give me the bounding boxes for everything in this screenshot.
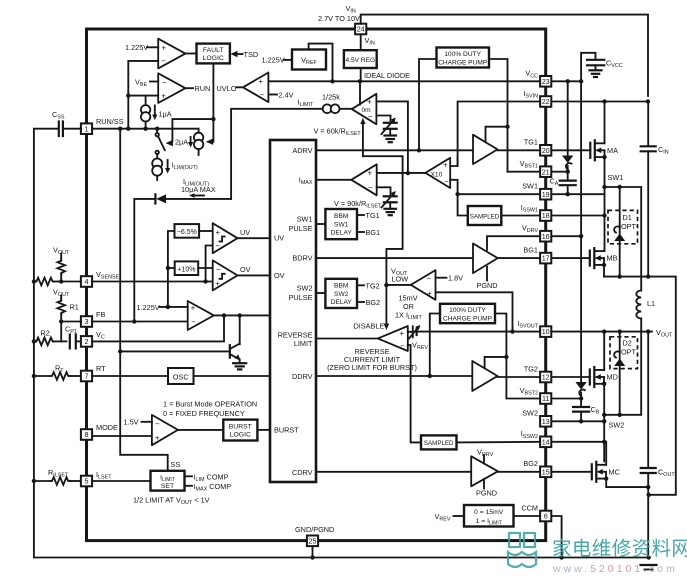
- svg-text:DDRV: DDRV: [292, 372, 313, 381]
- node bootstrap TG1 driver tap: [505, 125, 509, 129]
- node ISSW1 tap: [602, 213, 606, 217]
- svg-text:8: 8: [85, 430, 89, 439]
- wire +10% to OV minus: [198, 267, 213, 269]
- svg-text:TG1: TG1: [524, 138, 538, 147]
- pin 8 MODE: [81, 429, 92, 440]
- wire reverse comp out to block: [316, 338, 378, 340]
- box 100% DUTY CHARGE PUMP bottom: [440, 304, 495, 323]
- wire BDRV to BG1 driver: [316, 257, 473, 259]
- svg-text:BG2: BG2: [366, 298, 381, 307]
- svg-text:+: +: [259, 77, 264, 86]
- node MD source: [602, 382, 606, 386]
- wire box to pin6: [514, 515, 541, 517]
- svg-text:1: 1: [85, 124, 89, 133]
- svg-text:11: 11: [542, 394, 549, 403]
- control logic block (central): [270, 140, 316, 482]
- resistor VSENSE bottom divider: [35, 278, 61, 286]
- wire OV output to block: [238, 274, 271, 276]
- node SW1 X10 tap: [455, 192, 459, 196]
- op-amp BG2 gate driver: [471, 456, 498, 486]
- wire OSC to block: [194, 375, 271, 377]
- node VSENSE divider: [59, 279, 63, 283]
- svg-text:BURST: BURST: [229, 424, 252, 431]
- ground symbol bottom right: [641, 565, 657, 570]
- battery VREV: [408, 325, 421, 339]
- svg-text:−: −: [444, 178, 449, 187]
- svg-text:1.225V: 1.225V: [125, 43, 148, 52]
- node VOUT COUT tap: [646, 329, 650, 333]
- svg-text:SW1: SW1: [522, 182, 538, 191]
- diode bootstrap 1 (VCC to VBST1): [562, 81, 573, 171]
- svg-text:−: −: [161, 57, 166, 66]
- svg-text:MB: MB: [607, 254, 618, 263]
- node MB source: [602, 263, 606, 267]
- wire BG2 driver out to pin15: [498, 471, 540, 473]
- transistor MB: [590, 248, 618, 268]
- svg-text:LOGIC: LOGIC: [230, 432, 251, 439]
- resistor RT: [34, 372, 81, 380]
- ground under Q1: [233, 363, 246, 369]
- wire ILSET pin to ILIM SET box: [92, 480, 150, 482]
- svg-text:17: 17: [542, 254, 550, 263]
- svg-text:D1: D1: [623, 213, 632, 222]
- wire sampled1 left: [458, 194, 468, 215]
- wire SW2 pin external: [552, 420, 605, 422]
- svg-text:DELAY: DELAY: [331, 230, 353, 237]
- svg-text:PGND: PGND: [476, 489, 497, 498]
- resistor RILSET: [34, 477, 81, 485]
- svg-text:UV: UV: [274, 234, 284, 243]
- pin 5 ILSET: [81, 476, 92, 487]
- svg-text:LOGIC: LOGIC: [203, 55, 224, 62]
- wire SW1 node to L1: [605, 187, 642, 291]
- op-amp comparator 1.225V (fault): [158, 39, 185, 69]
- svg-text:TSD: TSD: [244, 50, 259, 59]
- wire 0m output arrow from ADRV jog: [362, 124, 364, 157]
- wire comp2 plus input: [128, 95, 158, 97]
- node disable junction: [384, 283, 388, 287]
- node COUT rail return junction: [647, 493, 651, 497]
- node VSENSE UV tap: [203, 279, 207, 283]
- transistor MA: [590, 140, 618, 160]
- svg-text:SW2: SW2: [609, 421, 625, 430]
- svg-text:3: 3: [85, 317, 89, 326]
- svg-text:+: +: [161, 91, 166, 100]
- arrow into 0m comparator: [360, 118, 365, 124]
- wire FB internal: [92, 321, 188, 323]
- svg-text:R2: R2: [41, 329, 50, 338]
- node VDRV rail tap: [579, 234, 583, 238]
- wire VBST1 external: [552, 171, 568, 173]
- svg-text:SW2: SW2: [522, 409, 538, 418]
- wire MODE comp out to burst logic: [178, 429, 223, 431]
- watermark icon: [508, 533, 536, 567]
- svg-text:+: +: [216, 228, 221, 237]
- wire TG2 gate: [552, 376, 590, 378]
- svg-text:BURST: BURST: [274, 425, 299, 434]
- diode D1 optional with dashed box: [608, 187, 638, 277]
- box 100% DUTY CHARGE PUMP top: [437, 48, 490, 68]
- wire BG1 driver out to pin: [498, 257, 540, 259]
- wire Css left to bus: [34, 128, 58, 130]
- comparator UV: [213, 223, 238, 253]
- IC outline border: [87, 29, 546, 541]
- wire X10 plus to ISVIN: [450, 157, 457, 166]
- node SS-vertical to BJT base: [118, 349, 122, 353]
- node 1.225V reference: [166, 305, 170, 309]
- stub TG1 tap BBM1: [357, 211, 380, 220]
- svg-text:SW1: SW1: [334, 221, 349, 228]
- pin 1 RUN/SS: [81, 123, 92, 134]
- svg-text:OPT: OPT: [621, 222, 637, 231]
- svg-text:23: 23: [542, 77, 550, 86]
- node RUN/SS SS-vertical: [118, 127, 122, 131]
- svg-text:ADRV: ADRV: [292, 146, 312, 155]
- transistor Q1 clamp BJT: [120, 315, 240, 362]
- wire SW1 internal: [458, 193, 540, 195]
- wire SW2 PULSE to BBM2: [316, 292, 325, 294]
- svg-text:L1: L1: [647, 299, 655, 308]
- wire -6.5% to UV plus: [199, 230, 213, 232]
- wire plus10 tap: [168, 267, 175, 269]
- hold capacitor 1 (adjustable): [382, 118, 397, 135]
- svg-text:0 = FIXED FREQUENCY: 0 = FIXED FREQUENCY: [163, 409, 245, 418]
- svg-text:−: −: [368, 112, 373, 121]
- wire error amp output: [214, 314, 270, 316]
- svg-text:SW1: SW1: [608, 173, 624, 182]
- svg-text:LIMIT: LIMIT: [294, 339, 313, 348]
- capacitor CB: [573, 399, 589, 422]
- wire 0m chain jog to disable vertical: [363, 156, 403, 285]
- wire burst logic to block: [257, 429, 270, 431]
- node X10 output junction: [406, 171, 410, 175]
- wire VDRV long vertical rail: [580, 81, 582, 382]
- wire VOUT LOW minus to 1.8V: [436, 277, 447, 279]
- node ISVOUT sense tap: [510, 329, 514, 333]
- svg-text:PULSE: PULSE: [289, 224, 313, 233]
- wire 0m plus to X10 node: [376, 101, 408, 173]
- node bus R2: [32, 339, 36, 343]
- svg-text:CCM: CCM: [521, 503, 538, 512]
- arrow fault to 2uA source: [206, 139, 213, 145]
- svg-text:1.5V: 1.5V: [124, 418, 139, 427]
- node reg output on rail: [358, 79, 362, 83]
- svg-text:5: 5: [85, 477, 89, 486]
- wire 1.225V node to plus: [160, 306, 188, 308]
- resistor R1: [57, 296, 65, 322]
- wire charge pump2 right to VBST2: [495, 314, 540, 399]
- node VIN/ISVIN junction: [646, 99, 650, 103]
- pin 6 CCM: [540, 511, 551, 522]
- svg-text:MODE: MODE: [96, 423, 118, 432]
- wire pin24 to reg: [360, 34, 362, 50]
- svg-text:+: +: [443, 161, 448, 170]
- svg-text:TG2: TG2: [524, 364, 538, 373]
- wire TG2 driver out to pin: [498, 376, 541, 378]
- svg-text:21: 21: [542, 167, 550, 176]
- svg-text:+10%: +10%: [177, 266, 195, 273]
- wire VBE dash: [150, 81, 158, 83]
- wire bootstrap to TG1 driver top: [486, 127, 508, 143]
- pin 18 ISSW1: [540, 210, 551, 221]
- wire VDRV internal rail: [487, 236, 540, 250]
- current source 1uA: [141, 96, 150, 129]
- svg-text:2μA: 2μA: [175, 138, 188, 147]
- svg-text:+: +: [215, 279, 220, 288]
- node MA source: [602, 155, 606, 159]
- wire diode row: [134, 199, 231, 322]
- wire pin25 stub to bus: [312, 546, 314, 557]
- box SAMPLED 2: [421, 435, 457, 449]
- svg-text:1/25k: 1/25k: [322, 93, 340, 102]
- node bus RT: [32, 374, 36, 378]
- svg-text:10: 10: [542, 327, 550, 336]
- wire CDRV to BG2 driver: [316, 471, 471, 473]
- stub BG2 driver VDRV: [477, 448, 494, 464]
- svg-text:BG1: BG1: [523, 246, 538, 255]
- wire divider to pin4: [61, 281, 81, 283]
- svg-text:R1: R1: [70, 303, 79, 312]
- wire IMAX minus to hold cap 2: [377, 187, 391, 194]
- svg-text:+: +: [162, 44, 167, 53]
- current source ILIM(OUT): [152, 154, 162, 180]
- capacitor CVCC with ground: [581, 53, 604, 82]
- stub BG1 driver PGND: [477, 267, 498, 290]
- svg-text:0 = 15mV: 0 = 15mV: [474, 509, 504, 516]
- capacitor COUT: [641, 332, 656, 558]
- wire UV minus from VSENSE: [206, 246, 213, 282]
- svg-text:−: −: [427, 274, 432, 283]
- svg-text:−: −: [260, 91, 265, 100]
- wire BG1 gate: [552, 257, 590, 259]
- node bus right end: [647, 555, 651, 559]
- svg-text:SW1: SW1: [297, 215, 313, 224]
- wire internal VCC rail (ideal diode): [269, 80, 541, 82]
- wire DDRV to TG2 driver: [316, 375, 472, 377]
- capacitor CIN: [641, 102, 656, 277]
- svg-text:13: 13: [542, 417, 550, 426]
- node rail D1: [618, 274, 622, 278]
- svg-text:2.7V TO 10V: 2.7V TO 10V: [318, 14, 360, 23]
- wire soft-start vertical (RUN/SS to clamp and SS): [120, 129, 168, 471]
- svg-text:−: −: [368, 183, 373, 192]
- svg-text:1.225V: 1.225V: [137, 303, 160, 312]
- svg-text:−: −: [400, 341, 405, 350]
- ground under hold cap 2: [385, 209, 397, 215]
- svg-text:D2: D2: [623, 339, 632, 348]
- wire VSENSE internal: [92, 281, 213, 283]
- svg-text:100% DUTY: 100% DUTY: [449, 307, 486, 314]
- svg-text:−: −: [216, 241, 221, 250]
- wire SW1 pin external: [552, 193, 605, 195]
- node CA to SW1 wire: [566, 192, 570, 196]
- wire UVLO tip dash: [237, 86, 244, 88]
- box BURST LOGIC: [223, 420, 257, 441]
- svg-text:BG1: BG1: [366, 228, 381, 237]
- pin 11 VBST2: [540, 393, 551, 404]
- wire X10 minus to SW1: [450, 180, 457, 194]
- svg-text:OPT: OPT: [621, 348, 637, 357]
- capacitor CSS: [59, 122, 63, 137]
- box -6.5%: [175, 224, 200, 238]
- svg-text:−6.5%: −6.5%: [177, 229, 197, 236]
- stub TG2 tap BBM2: [357, 281, 380, 290]
- svg-text:15: 15: [542, 467, 550, 476]
- node CCM bus junction: [559, 555, 563, 559]
- svg-text:FAULT: FAULT: [203, 47, 224, 54]
- wire FB divider to pin3: [61, 321, 81, 323]
- wire sampled2 right to pin14: [457, 441, 541, 444]
- node reference plus10 tap: [166, 266, 170, 270]
- node diode chain to FB: [132, 319, 136, 323]
- wire FAULT LOGIC down: [212, 63, 214, 141]
- current mirror 1/25k: [323, 104, 340, 113]
- svg-text:UVLO: UVLO: [217, 84, 237, 93]
- op-amp TG2 gate driver: [472, 361, 497, 391]
- svg-text:CHARGE PUMP: CHARGE PUMP: [438, 59, 488, 66]
- wire 1.225V to + input: [147, 46, 158, 48]
- arrow 10uA max left: [189, 193, 204, 198]
- node SW2 pin tap: [602, 419, 606, 423]
- wire VREV dash to box: [454, 515, 465, 517]
- node ISVIN MA drain junction: [602, 99, 606, 103]
- wire VOUT LOW out to disable node: [386, 284, 410, 286]
- wire TG1 driver out to pin: [498, 149, 541, 151]
- stub BG1 tap BBM1: [357, 228, 380, 237]
- label 2uA with arrow: [175, 137, 193, 148]
- svg-text:+: +: [368, 169, 373, 178]
- svg-text:+: +: [427, 289, 432, 298]
- svg-text:TG1: TG1: [366, 211, 380, 220]
- diode bootstrap 2 (VDRV to VBST2): [575, 382, 586, 399]
- node COUT MC junction: [646, 485, 650, 489]
- pin 24 VIN: [355, 24, 366, 35]
- pin 23 VCC: [540, 76, 551, 87]
- svg-text:1.225V: 1.225V: [262, 56, 285, 65]
- svg-text:GND/PGND: GND/PGND: [295, 525, 334, 534]
- arrow fault to switch: [166, 140, 173, 146]
- node fault branch: [211, 117, 215, 121]
- comparator REVERSE CURRENT LIMIT: [378, 326, 408, 351]
- svg-text:OSC: OSC: [173, 372, 189, 381]
- wire IMAX COMP stub: [185, 482, 232, 493]
- box VREF: [292, 50, 326, 70]
- box OSC: [168, 368, 194, 384]
- svg-text:10μA MAX: 10μA MAX: [181, 185, 216, 194]
- svg-text:X10: X10: [431, 172, 443, 179]
- svg-text:BBM: BBM: [334, 213, 348, 220]
- wire RUN/SS internal: [92, 128, 199, 130]
- svg-text:家电维修资料网: 家电维修资料网: [552, 538, 687, 560]
- wire ADRV to TG1 driver: [316, 149, 473, 151]
- svg-text:SS: SS: [171, 460, 181, 469]
- arrow disable into reverse comp: [384, 324, 390, 330]
- wire sampled1 right to pin18: [501, 215, 540, 217]
- wire L1 to SW2: [604, 319, 641, 415]
- node SW2 D2 bottom: [618, 413, 622, 417]
- pin 2 VC: [81, 336, 92, 347]
- svg-text:4.5V REG: 4.5V REG: [345, 57, 375, 64]
- op-amp comparator VBE (RUN): [158, 73, 185, 103]
- wire VBST2 external: [552, 398, 582, 400]
- svg-text:22: 22: [542, 97, 550, 106]
- pin 12 TG2: [540, 372, 551, 383]
- svg-text:7: 7: [85, 372, 89, 381]
- pin 22 ISVIN: [540, 96, 551, 107]
- wire charge pump2 left to DDRV: [430, 314, 440, 377]
- svg-text:PGND: PGND: [477, 281, 498, 290]
- wire UVLO minus to 2.4V: [268, 94, 277, 96]
- box CCM mode 0=15mV 1=ILIMIT: [464, 505, 514, 527]
- svg-text:SW2: SW2: [334, 291, 349, 298]
- svg-text:OV: OV: [240, 265, 251, 274]
- wire reg to rail: [360, 68, 362, 81]
- wire 0m minus to hold cap: [376, 116, 390, 122]
- svg-text:TG2: TG2: [366, 281, 380, 290]
- svg-text:19: 19: [542, 190, 550, 199]
- capacitor CP1: [70, 335, 81, 349]
- svg-text:4: 4: [85, 277, 89, 286]
- svg-text:SET: SET: [161, 483, 174, 490]
- box 4.5V REG: [344, 50, 377, 68]
- node SW1 D1 tap: [618, 185, 622, 189]
- node VOUT D2 tap: [618, 329, 622, 333]
- svg-text:DELAY: DELAY: [331, 299, 353, 306]
- svg-text:BG2: BG2: [523, 459, 538, 468]
- wire FB node down to R2 row: [60, 322, 62, 342]
- pin 16 VDRV: [540, 231, 551, 242]
- wire power ground rail: [604, 277, 676, 495]
- op-amp TG1 gate driver: [473, 135, 498, 164]
- box BBM SW1 DELAY: [325, 209, 357, 239]
- transistor MC: [592, 462, 620, 482]
- pin 15 BG2: [540, 467, 551, 478]
- comparator OV: [213, 260, 238, 290]
- wire SW1 PULSE to BBM1: [316, 223, 325, 225]
- node VOUT MD tap: [602, 329, 606, 333]
- node VBST2 junction: [579, 396, 583, 400]
- node bus VSENSE: [32, 279, 36, 283]
- wire comp1 minus loop down: [128, 61, 158, 129]
- svg-text:−: −: [216, 265, 221, 274]
- wire ISVIN external to CIN node: [552, 101, 649, 103]
- svg-text:SW2: SW2: [297, 284, 313, 293]
- svg-text:+: +: [155, 433, 160, 442]
- wire VIN top rail: [361, 15, 648, 96]
- node output VC tap: [222, 313, 226, 317]
- svg-text:CDRV: CDRV: [292, 468, 313, 477]
- diode D2 optional with dashed box: [610, 332, 638, 415]
- wire reverse comp minus to sampled2: [408, 345, 421, 442]
- ground under hold cap 1: [385, 136, 397, 143]
- node FB divider: [59, 319, 63, 323]
- svg-text:12: 12: [542, 373, 550, 382]
- node MC source: [604, 476, 608, 480]
- wire comp2 output RUN: [185, 87, 193, 89]
- wire ISVIN internal: [458, 102, 540, 167]
- svg-text:DISABLE: DISABLE: [354, 322, 385, 331]
- svg-text:RUN: RUN: [195, 84, 211, 93]
- svg-text:SAMPLED: SAMPLED: [470, 214, 500, 221]
- amplifier X10: [425, 158, 450, 188]
- comparator MODE: [152, 415, 178, 445]
- wire bootstrap to TG2 driver top: [485, 357, 507, 369]
- node VCC long-rail tap: [579, 79, 583, 83]
- node bus RILSET: [32, 479, 36, 483]
- node DDRV charge pump tap: [428, 374, 432, 378]
- wire ILIMIT row: [231, 109, 352, 199]
- node 1uA to RUN/SS: [143, 127, 147, 131]
